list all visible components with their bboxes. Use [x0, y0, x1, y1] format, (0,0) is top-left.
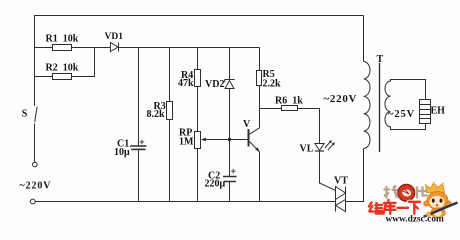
wire VL to triac gate — [320, 151, 336, 190]
capacitor C1 — [130, 140, 147, 150]
svg-text:VT: VT — [334, 175, 348, 186]
potentiometer RP — [195, 132, 230, 149]
wire secondary top to EH — [391, 80, 426, 100]
svg-text:220μ: 220μ — [205, 178, 226, 189]
svg-text:T: T — [377, 54, 384, 65]
svg-text:R2 10k: R2 10k — [46, 62, 79, 73]
wire left vertical — [34, 15, 36, 106]
transistor V — [249, 128, 261, 153]
svg-text:10μ: 10μ — [114, 147, 130, 158]
switch S — [33, 107, 38, 167]
terminal bottom — [30, 199, 35, 204]
wire top border — [35, 15, 364, 17]
wire R4 RP branch — [197, 48, 199, 202]
svg-text:VD1: VD1 — [105, 32, 124, 42]
wire VL branch — [319, 109, 321, 144]
wire primary drop — [363, 16, 365, 62]
resistor R5 — [257, 71, 262, 86]
watermark dzsc logo — [369, 182, 458, 225]
triac VT — [336, 187, 346, 212]
transformer core — [379, 63, 381, 152]
wire R5 branch — [259, 48, 261, 128]
svg-text:R6 1k: R6 1k — [275, 96, 303, 107]
wire VD2 C2 branch — [229, 48, 231, 202]
resistor R1 — [53, 45, 72, 51]
node base junction — [228, 138, 231, 141]
svg-text:1M: 1M — [179, 136, 194, 147]
wire R2 row — [35, 48, 95, 78]
svg-text:~220V: ~220V — [20, 181, 52, 192]
svg-text:www.dzsc.com: www.dzsc.com — [386, 215, 445, 223]
svg-text:S: S — [22, 109, 28, 120]
wire R3 branch — [169, 48, 171, 202]
wire base — [230, 139, 249, 141]
LED VL — [315, 140, 335, 151]
zener diode VD2 — [225, 80, 235, 89]
wire DC rail — [119, 47, 260, 49]
transformer T primary winding — [364, 62, 371, 149]
svg-text:47k: 47k — [178, 78, 194, 89]
wire emitter down — [259, 152, 261, 202]
resistor R6 — [282, 106, 298, 111]
resistor R2 — [53, 74, 72, 80]
capacitor C2 — [223, 169, 237, 182]
svg-text:R1 10k: R1 10k — [46, 34, 79, 45]
heater EH — [420, 100, 431, 124]
svg-text:8.2k: 8.2k — [147, 109, 166, 120]
resistor R3 — [167, 102, 173, 120]
svg-text:VL: VL — [300, 143, 314, 154]
wire bottom rail — [35, 201, 336, 203]
svg-text:2.2k: 2.2k — [263, 78, 282, 89]
svg-text:~220V: ~220V — [324, 93, 358, 105]
wire triac to primary — [346, 149, 364, 202]
wire secondary bottom to EH — [391, 124, 426, 130]
svg-text:VD2: VD2 — [205, 79, 224, 90]
wire C1 branch — [138, 48, 140, 202]
resistor R4 — [195, 70, 201, 87]
svg-text:EH: EH — [431, 105, 446, 116]
wire R6 row — [260, 108, 320, 110]
transformer secondary winding — [385, 81, 390, 127]
diode VD1 — [110, 43, 118, 52]
wire R1 row — [35, 47, 111, 49]
svg-text:~25V: ~25V — [388, 109, 415, 120]
svg-text:V: V — [243, 119, 251, 130]
